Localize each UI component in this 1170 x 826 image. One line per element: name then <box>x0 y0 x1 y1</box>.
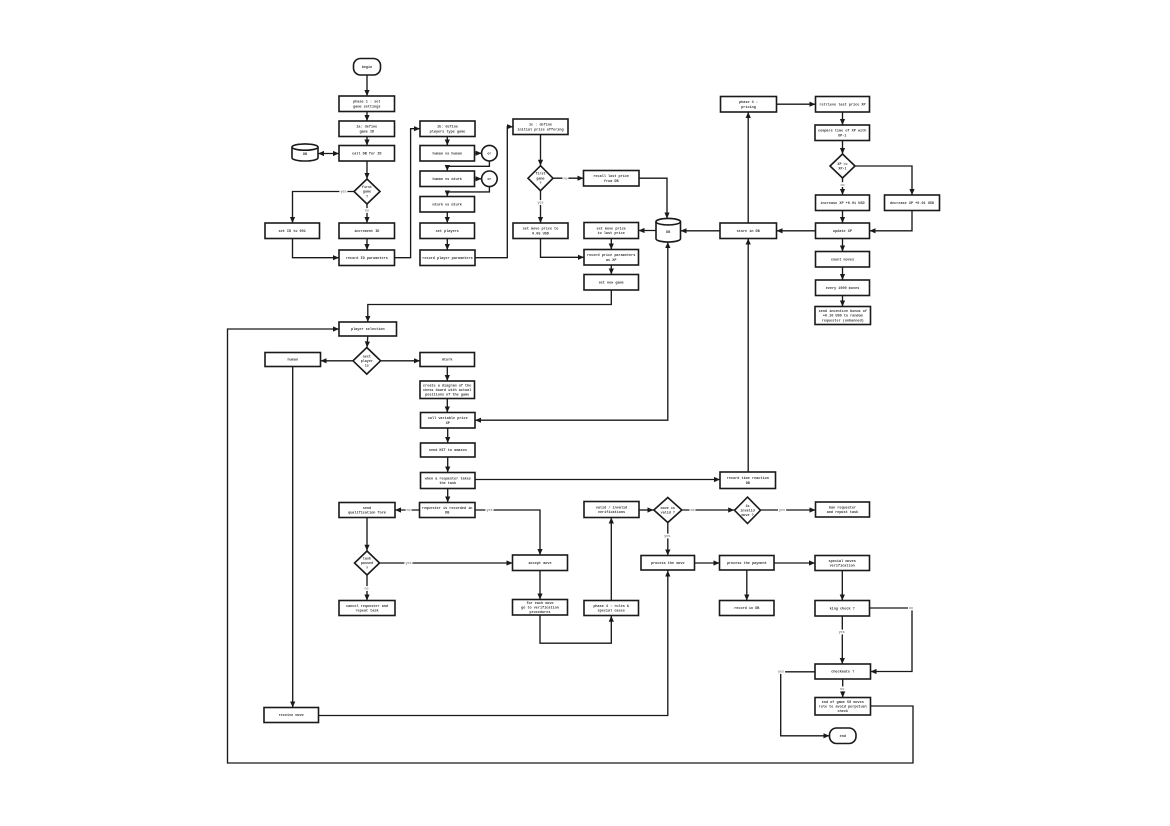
svg-text:or: or <box>487 151 491 156</box>
svg-text:?: ? <box>366 195 368 199</box>
wire: create diagram to call variable price <box>445 399 450 413</box>
svg-text:player: player <box>361 359 373 364</box>
svg-text:begin: begin <box>362 65 373 70</box>
svg-text:invalid: invalid <box>740 509 754 514</box>
svg-text:initial prize offering: initial prize offering <box>517 127 563 132</box>
wire: call variable price to send HIT <box>445 428 450 443</box>
wire: increase to update XP <box>840 211 845 224</box>
wire: for each move to phase rules <box>540 615 614 643</box>
wire: next player to mturk <box>381 358 420 363</box>
wire: count moves to every 1000 moves <box>840 267 845 280</box>
svg-text:players type game: players type game <box>430 129 466 134</box>
process: record price parameters as XP <box>584 250 639 266</box>
process: receive move <box>264 708 319 723</box>
wire: requester recorded yes to accept move <box>475 510 543 555</box>
svg-text:no: no <box>840 688 844 692</box>
svg-text:?: ? <box>539 182 541 186</box>
svg-text:XP: XP <box>446 422 450 426</box>
svg-text:chess board with actual: chess board with actual <box>423 388 471 393</box>
svg-text:record price parameters: record price parameters <box>587 253 635 258</box>
wire: record player parameters to 1c <box>475 124 513 258</box>
process: player selection <box>339 322 397 336</box>
wire: king check no to checkmate right <box>870 608 913 674</box>
svg-text:or: or <box>487 177 491 182</box>
wire: recall last price to DB 2 <box>639 178 670 218</box>
process: cancel requester and repeat task <box>339 601 395 616</box>
label no <box>364 208 370 214</box>
wire: DB 2 to call variable price XP (bidirectional) <box>475 242 670 423</box>
svg-text:valid ?: valid ? <box>661 511 675 516</box>
process: count moves <box>816 252 870 268</box>
svg-text:no: no <box>364 588 368 592</box>
svg-text:for each move: for each move <box>526 601 553 606</box>
process: phase 4 rules and special cases <box>584 601 639 616</box>
wire: accept move to for each move <box>537 571 542 600</box>
label no 5 <box>364 586 370 592</box>
wire: call DB for ID to DB (bidirectional) <box>318 151 339 156</box>
process: record in DB <box>720 601 775 616</box>
label yes 5 <box>404 561 412 567</box>
svg-text:game: game <box>363 191 371 195</box>
svg-text:set ID to 001: set ID to 001 <box>279 230 306 234</box>
process: create chess board diagram <box>420 381 475 399</box>
svg-text:phase 4 : rules &: phase 4 : rules & <box>593 604 630 609</box>
svg-text:call variable price: call variable price <box>428 416 468 421</box>
svg-text:receive move: receive move <box>279 713 304 718</box>
svg-text:count moves: count moves <box>831 259 854 263</box>
svg-text:XP-1: XP-1 <box>838 168 846 172</box>
svg-text:the task: the task <box>439 481 456 486</box>
svg-text:phase 4 :: phase 4 : <box>739 100 758 105</box>
process: set players <box>420 223 475 239</box>
svg-text:no: no <box>365 210 369 214</box>
wire: increment ID to record ID parameters <box>364 239 369 251</box>
svg-text:send HIT to amazon: send HIT to amazon <box>429 448 467 453</box>
process: record time reaction DB <box>720 472 776 489</box>
process: every 1000 moves <box>816 280 870 296</box>
svg-text:rule to avoid perpetual: rule to avoid perpetual <box>819 705 867 710</box>
wire: store in DB to DB 2 <box>681 228 721 233</box>
label yes 6 <box>778 508 786 514</box>
wire: special moves to king check <box>840 571 845 601</box>
svg-text:yes: yes <box>779 509 785 513</box>
svg-text:end: end <box>840 734 846 739</box>
decision: move is valid ? <box>654 498 682 523</box>
svg-text:no: no <box>909 607 913 611</box>
svg-text:set move price to: set move price to <box>523 227 559 232</box>
svg-text:procedures: procedures <box>529 610 550 615</box>
process: set move price to 0.05 USD <box>513 223 568 239</box>
process: increase XP +0.01 USD <box>816 195 870 211</box>
wire: XP decision to decrease <box>855 166 915 195</box>
wire: 1a to call DB for ID <box>364 137 369 146</box>
process: human vs mturk <box>420 171 475 187</box>
wire: send qualification to task passed <box>364 518 369 551</box>
svg-text:decrease XP +0.01 USD: decrease XP +0.01 USD <box>890 201 934 206</box>
process: send qualification form <box>339 503 395 518</box>
wire: set players to record player parameters <box>445 239 450 251</box>
wire: every 1000 moves to send incentive bonus <box>840 296 845 307</box>
wire: set ID to 001 to record ID parameters <box>293 239 340 261</box>
process: set ID to 001 <box>265 223 320 239</box>
svg-text:move ?: move ? <box>741 514 753 518</box>
process: human vs human <box>420 146 475 162</box>
process: 1a define game ID <box>339 121 395 137</box>
decision: first game ? (ID) <box>354 179 380 204</box>
svg-text:yes: yes <box>340 191 346 195</box>
database DB (prices) <box>656 218 681 242</box>
process: king check ? <box>815 601 870 617</box>
svg-text:next: next <box>363 355 371 359</box>
decision: first game ? (prize) <box>528 166 553 191</box>
svg-text:game settings: game settings <box>353 104 380 109</box>
svg-text:positions of the game: positions of the game <box>425 393 469 398</box>
svg-text:set move price: set move price <box>596 226 625 231</box>
svg-text:is: is <box>365 364 369 369</box>
svg-text:verifications: verifications <box>598 510 625 515</box>
svg-text:no: no <box>406 509 410 513</box>
wire: first game 2 no to recall last price <box>553 176 584 181</box>
wire: when requester takes to record time reaction <box>475 477 720 482</box>
wire: checkmate no to end of game rule <box>840 679 845 698</box>
svg-text:human vs human: human vs human <box>432 152 461 157</box>
svg-text:yes: yes <box>664 535 670 539</box>
wire: compare to XP decision <box>840 141 845 155</box>
wire: human to receive move <box>290 367 295 708</box>
wire: 3x invalid yes to ban requester <box>761 507 816 512</box>
label yes 2 <box>537 200 545 206</box>
svg-text:go to verification: go to verification <box>521 606 559 611</box>
process: call variable price XP <box>421 413 476 429</box>
svg-text:cancel requester and: cancel requester and <box>346 604 388 609</box>
svg-text:as XP: as XP <box>606 259 617 263</box>
svg-text:record in DB: record in DB <box>734 606 760 611</box>
wire: first game no to increment ID <box>364 204 369 223</box>
svg-text:mturk vs mturk: mturk vs mturk <box>432 203 461 208</box>
wire: begin to phase 1 <box>364 75 369 96</box>
wire: receive move to process the move <box>319 571 671 716</box>
wire: next player to human <box>321 358 354 363</box>
label yes 9 <box>777 669 785 675</box>
svg-text:yes: yes <box>839 631 845 635</box>
svg-text:yes: yes <box>778 671 784 675</box>
wire: record ID parameters to 1b <box>395 126 421 258</box>
svg-text:verification: verification <box>830 564 855 569</box>
process: checkmate ? <box>815 664 871 679</box>
process: set new game <box>584 275 639 291</box>
svg-text:send incentive bonus of: send incentive bonus of <box>819 309 867 314</box>
process: valid invalid verifications <box>584 502 639 518</box>
svg-text:ban requester: ban requester <box>829 505 856 510</box>
svg-text:from DB: from DB <box>604 179 620 184</box>
svg-text:player selection: player selection <box>351 327 385 332</box>
svg-text:XP >=: XP >= <box>837 162 847 167</box>
svg-text:mturk: mturk <box>442 358 453 363</box>
svg-text:end of game 50 moves: end of game 50 moves <box>822 700 864 705</box>
decision: 3x invalid move ? <box>735 497 761 523</box>
svg-text:game: game <box>536 177 544 181</box>
svg-text:valid / invalid: valid / invalid <box>596 505 628 510</box>
svg-text:special cases: special cases <box>598 609 625 614</box>
svg-text:checkmate ?: checkmate ? <box>831 670 854 675</box>
wire: record time reaction up to store in DB <box>746 239 751 473</box>
wire: update to count moves <box>840 239 845 252</box>
label no 6 <box>690 508 696 514</box>
process: accept move <box>513 555 568 571</box>
label no 3 <box>840 182 846 188</box>
svg-text:every 1000 moves: every 1000 moves <box>826 286 860 291</box>
terminator: begin <box>354 59 381 76</box>
wire: decrease to update XP <box>870 211 913 234</box>
process: mturk vs mturk <box>420 197 475 213</box>
svg-text:call DB for ID: call DB for ID <box>352 152 381 157</box>
wire: process payment to special moves <box>774 560 815 565</box>
wire: store in DB up to phase 4 <box>746 112 751 223</box>
svg-text:phase 1 : set: phase 1 : set <box>353 100 380 105</box>
wire: move is valid no to 3x invalid <box>682 507 734 512</box>
svg-text:retrieve last price XP: retrieve last price XP <box>819 103 865 108</box>
svg-text:3x: 3x <box>745 505 749 509</box>
svg-text:passed: passed <box>361 561 373 566</box>
svg-text:create a diagram of the: create a diagram of the <box>423 383 471 388</box>
wire: or 1 to human vs mturk <box>445 161 490 171</box>
wire: 1b to human vs human <box>445 137 450 146</box>
wire: end of game loop to player selection <box>228 326 914 763</box>
wire: XP decision no to increase <box>840 178 845 195</box>
wire: record price parameters to set new game <box>609 265 614 275</box>
process: process the move <box>641 556 695 571</box>
wire: move is valid yes to process the move <box>665 523 670 556</box>
svg-text:qualification form: qualification form <box>348 511 386 516</box>
svg-text:+0.10 USD to random: +0.10 USD to random <box>823 314 863 319</box>
process: phase 4 pricing <box>721 97 777 113</box>
svg-text:requester (unbanned): requester (unbanned) <box>822 318 864 323</box>
process: recall last price from DB <box>584 171 640 187</box>
svg-text:1a: define: 1a: define <box>356 125 377 130</box>
svg-text:update XP: update XP <box>833 229 852 234</box>
process: call DB for ID <box>339 146 395 162</box>
svg-text:XP-1: XP-1 <box>838 134 846 138</box>
wire: retrieve to compare <box>840 112 845 125</box>
process: compare time of XP with XP-1 <box>815 125 870 141</box>
svg-text:DB: DB <box>303 153 307 157</box>
svg-text:1b: define: 1b: define <box>437 125 458 130</box>
process: for each move go to verification procedures <box>513 600 568 616</box>
wire: update XP to store in DB <box>777 228 816 233</box>
svg-text:requester is recorded in: requester is recorded in <box>422 506 472 511</box>
wire: king check yes to checkmate <box>840 616 845 664</box>
process: retrieve last price XP <box>816 97 870 113</box>
label no 8 <box>839 686 845 692</box>
process: send HIT to amazon <box>421 443 476 457</box>
svg-text:0.05 USD: 0.05 USD <box>532 232 549 236</box>
wire: mturk to create diagram <box>445 367 450 382</box>
wire: process move to process payment <box>695 560 720 565</box>
svg-text:increment ID: increment ID <box>354 229 379 234</box>
process: phase 1 set game settings <box>339 96 395 112</box>
svg-text:game ID: game ID <box>359 130 374 134</box>
process: update XP <box>816 223 870 239</box>
svg-text:human: human <box>288 358 299 363</box>
terminator: end <box>830 728 857 744</box>
wire: call DB for ID to first game decision <box>364 161 369 179</box>
svg-text:task: task <box>363 557 371 562</box>
wire: process payment to record in DB <box>744 570 749 601</box>
process: record player parameters <box>420 250 475 266</box>
svg-text:record player parameters: record player parameters <box>422 256 472 261</box>
wire: human vs human to or 1 <box>475 151 482 156</box>
process: end of game 50 moves rule <box>815 698 871 716</box>
label yes 4 <box>485 508 493 514</box>
wire: when requester takes to requester recorded <box>445 489 450 503</box>
process: store in DB <box>720 223 777 239</box>
svg-text:record ID parameters: record ID parameters <box>346 256 388 261</box>
svg-text:human vs mturk: human vs mturk <box>432 177 461 182</box>
process: mturk <box>420 353 475 367</box>
process: process the payment <box>720 556 775 571</box>
svg-text:store in DB: store in DB <box>737 229 761 234</box>
wire: set move price 0.05 to record price parameters <box>541 239 585 260</box>
decision: XP >= XP-1 <box>830 154 855 178</box>
svg-text:set players: set players <box>436 229 459 234</box>
decision: task passed ? <box>355 551 380 575</box>
svg-text:repeat task: repeat task <box>355 609 378 614</box>
wire: set move price last to record price parameters <box>609 239 614 250</box>
label no 2 <box>563 176 569 182</box>
process: requester is recorded in DB <box>420 503 476 518</box>
process: when a requester takes the task <box>421 473 476 489</box>
wire: set new game to player selection <box>365 290 611 322</box>
svg-text:accept move: accept move <box>528 562 551 566</box>
process: 1b define players type game <box>420 121 475 137</box>
wire: or 2 to mturk vs mturk <box>445 187 490 197</box>
process: set move price to last price <box>584 223 639 239</box>
svg-text:1c : define: 1c : define <box>529 123 552 128</box>
svg-text:compare time of XP with: compare time of XP with <box>818 129 866 134</box>
svg-text:move is: move is <box>661 506 675 511</box>
label yes 8 <box>838 630 846 636</box>
svg-text:record time reaction: record time reaction <box>727 476 769 481</box>
svg-text:first: first <box>535 172 545 177</box>
wire: DB 2 to set move price to last price <box>639 228 657 233</box>
connector or 2 <box>482 171 498 187</box>
svg-text:process the move: process the move <box>651 561 685 566</box>
label yes <box>339 189 347 195</box>
process: decrease XP +0.01 USD <box>885 195 940 211</box>
connector or 1 <box>482 145 498 161</box>
process: ban requester and repost task <box>816 502 870 517</box>
svg-text:yes: yes <box>486 509 492 513</box>
svg-text:no: no <box>563 177 567 181</box>
svg-text:recall last price: recall last price <box>593 174 629 179</box>
svg-text:increase XP +0.01 USD: increase XP +0.01 USD <box>820 201 864 206</box>
svg-text:DB: DB <box>666 231 670 235</box>
wire: phase 4 to retrieve last price XP <box>777 102 816 107</box>
wire: send HIT to when requester takes task <box>445 457 450 473</box>
label yes 7 <box>663 534 671 540</box>
wire: requester recorded no to send qualification <box>395 507 420 512</box>
process: send incentive bonus <box>815 307 871 325</box>
decision: next player is <box>353 348 381 375</box>
label no 7 <box>908 606 914 612</box>
svg-text:yes: yes <box>537 202 543 206</box>
svg-text:to last price: to last price <box>598 231 625 236</box>
svg-text:first: first <box>362 185 372 190</box>
svg-text:no: no <box>840 184 844 188</box>
svg-text:send: send <box>363 506 371 511</box>
wire: phase 1 to 1a <box>364 112 369 122</box>
svg-text:process the payment: process the payment <box>727 561 767 566</box>
wire: task passed no to cancel requester <box>364 575 369 600</box>
wire: phase rules to valid invalid <box>609 518 614 601</box>
svg-text:set new game: set new game <box>599 282 624 286</box>
wire: player selection to next player decision <box>365 336 370 348</box>
wire: valid invalid to move is valid <box>639 507 654 512</box>
wire: human vs mturk to or 2 <box>475 176 482 181</box>
process: record ID parameters <box>339 250 395 266</box>
svg-text:special moves: special moves <box>829 559 856 564</box>
svg-text:when a requester takes: when a requester takes <box>425 476 471 481</box>
wire: checkmate yes to end <box>781 672 830 739</box>
database DB (game id) <box>292 144 318 161</box>
svg-text:pricing: pricing <box>741 105 756 110</box>
svg-text:yes: yes <box>405 562 411 566</box>
wire: task passed yes to accept move <box>380 560 513 565</box>
process: special moves verification <box>815 556 870 571</box>
svg-text:king check ?: king check ? <box>830 607 855 612</box>
wire: 1c to first game decision 2 <box>538 135 543 166</box>
svg-text:?: ? <box>366 567 368 571</box>
svg-text:and repost task: and repost task <box>827 510 859 515</box>
wire: first game yes to set ID to 001 <box>290 192 354 224</box>
process: 1c define initial prize offering <box>513 119 568 135</box>
svg-text:no: no <box>690 509 694 513</box>
wire: mturk vs mturk to set players <box>445 212 450 223</box>
wire: first game 2 yes to set move price 0.05 <box>538 191 543 223</box>
svg-text:check: check <box>838 709 849 714</box>
process: human <box>265 353 321 367</box>
label no 4 <box>406 508 412 514</box>
process: increment ID <box>339 223 395 239</box>
